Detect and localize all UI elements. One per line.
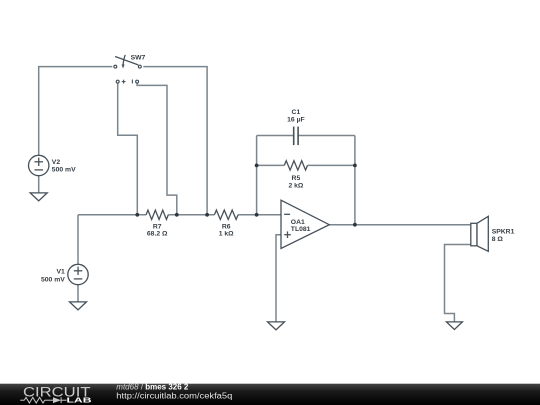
svg-text:SW7: SW7 [131, 55, 146, 62]
svg-text:500 mV: 500 mV [52, 167, 76, 174]
svg-text:R6: R6 [222, 223, 231, 230]
svg-text:8 Ω: 8 Ω [492, 236, 504, 243]
svg-text:2 kΩ: 2 kΩ [288, 182, 303, 189]
svg-text:68.2 Ω: 68.2 Ω [147, 231, 168, 238]
svg-text:R7: R7 [153, 223, 162, 230]
svg-text:1 kΩ: 1 kΩ [219, 231, 234, 238]
svg-text:http://circuitlab.com/cekfa5q: http://circuitlab.com/cekfa5q [116, 391, 232, 400]
svg-text:R5: R5 [292, 175, 301, 182]
svg-text:OA1: OA1 [291, 219, 305, 226]
svg-text:V2: V2 [52, 159, 61, 166]
svg-text:SPKR1: SPKR1 [492, 229, 515, 236]
svg-text:16 µF: 16 µF [287, 117, 305, 124]
svg-text:C1: C1 [292, 109, 301, 116]
svg-text:500 mV: 500 mV [41, 276, 65, 283]
svg-text:TL081: TL081 [291, 226, 311, 233]
svg-text:V1: V1 [56, 269, 65, 276]
svg-text:mtd68 / bmes 326 2: mtd68 / bmes 326 2 [116, 382, 189, 391]
svg-text:LAB: LAB [67, 396, 93, 405]
